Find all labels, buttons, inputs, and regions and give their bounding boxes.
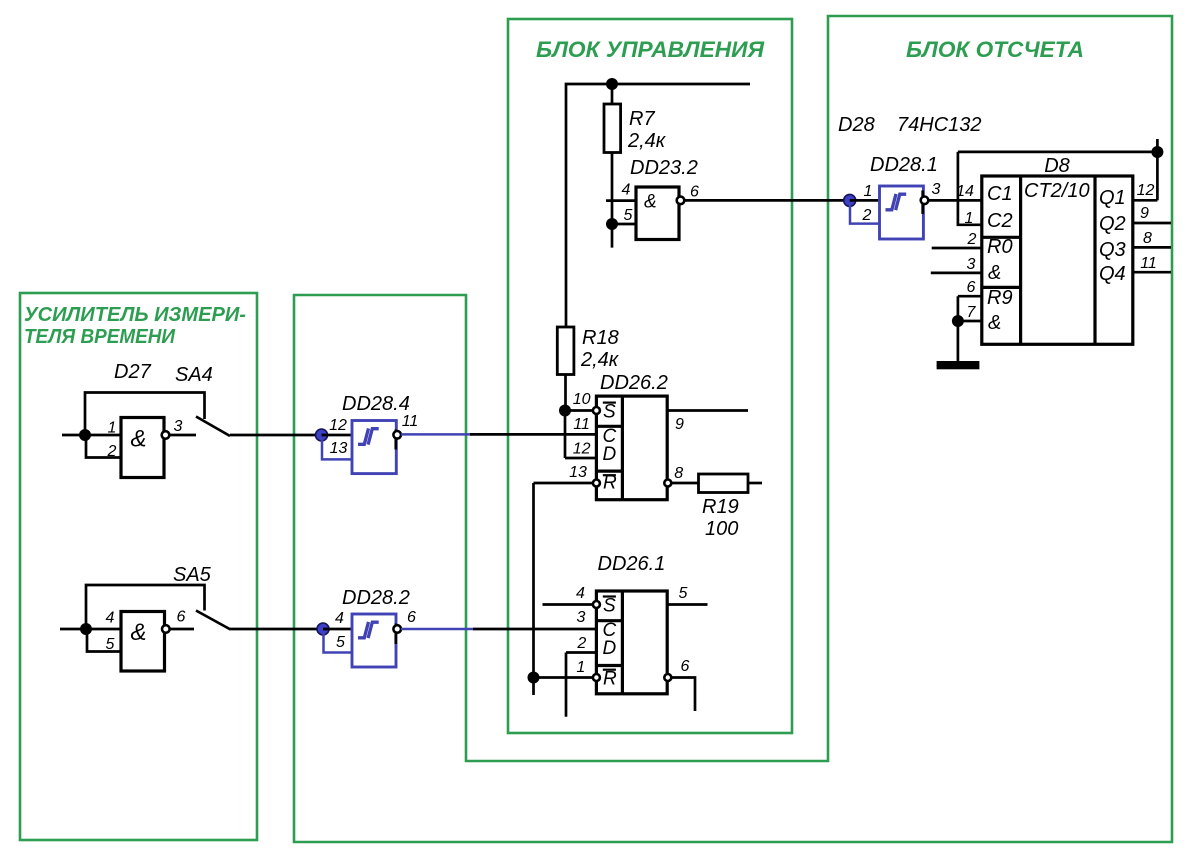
- pin 6 wire: [958, 295, 982, 298]
- pin 8 wire: [1133, 246, 1171, 249]
- svg-text:13: 13: [569, 464, 587, 481]
- svg-text:D27: D27: [114, 361, 152, 383]
- pin 13 loop wire (blue): [322, 438, 352, 459]
- svg-text:БЛОК ОТСЧЕТА: БЛОК ОТСЧЕТА: [906, 37, 1084, 62]
- svg-text:R: R: [603, 669, 617, 690]
- svg-text:Q4: Q4: [1099, 263, 1126, 285]
- ground: [937, 361, 980, 369]
- svg-text:6: 6: [407, 609, 416, 626]
- svg-text:CT2/10: CT2/10: [1024, 180, 1090, 202]
- pin 11 wire: [1133, 271, 1171, 274]
- black tick at output edge: [394, 624, 397, 627]
- svg-text:1: 1: [864, 183, 873, 200]
- svg-text:13: 13: [330, 440, 348, 457]
- pin 2 loop wire (blue): [850, 203, 880, 224]
- svg-text:R0: R0: [987, 236, 1013, 258]
- DD28.2 output bubble: [393, 625, 401, 633]
- svg-text:&: &: [988, 262, 1001, 284]
- svg-text:1: 1: [576, 659, 585, 676]
- wire: junction down to D pin: [564, 411, 567, 459]
- pin 9 wire: [1133, 222, 1171, 225]
- svg-text:DD28.2: DD28.2: [342, 587, 410, 609]
- svg-text:DD23.2: DD23.2: [630, 157, 698, 179]
- pin 2 loop wire: [86, 435, 121, 458]
- svg-text:Q2: Q2: [1099, 213, 1126, 235]
- svg-text:БЛОК УПРАВЛЕНИЯ: БЛОК УПРАВЛЕНИЯ: [536, 37, 765, 62]
- schmitt trigger DD28.2 box: [352, 614, 396, 667]
- svg-text:S: S: [603, 402, 616, 423]
- svg-text:9: 9: [1140, 205, 1149, 222]
- svg-text:2: 2: [107, 443, 117, 460]
- svg-text:D28: D28: [838, 114, 875, 136]
- svg-text:2,4к: 2,4к: [627, 130, 667, 152]
- svg-text:6: 6: [177, 609, 186, 626]
- pin 1 wire: [85, 434, 121, 437]
- pin 5 wire: [612, 223, 636, 226]
- junction (blue) DD28.2 input: [317, 623, 329, 635]
- svg-text:DD28.1: DD28.1: [870, 154, 938, 176]
- svg-text:3: 3: [967, 256, 976, 273]
- wire: DD28.4 output (blue part): [401, 433, 470, 436]
- svg-text:R19: R19: [702, 496, 739, 518]
- wire: R7 top lead: [611, 84, 614, 104]
- svg-text:7: 7: [967, 304, 977, 321]
- svg-text:DD26.2: DD26.2: [600, 372, 668, 394]
- junction (blue) DD28.1 input: [844, 194, 856, 206]
- svg-text:R18: R18: [582, 327, 619, 349]
- svg-text:Q1: Q1: [1099, 187, 1126, 209]
- schmitt trigger DD28.1 box: [880, 186, 924, 239]
- svg-text:R9: R9: [987, 287, 1013, 309]
- svg-text:8: 8: [674, 465, 683, 482]
- svg-text:&: &: [131, 619, 147, 646]
- pin 13 wire and bubble: [534, 482, 593, 485]
- wire: D stub down: [565, 653, 568, 717]
- flip-flop DD26.2 box: [596, 396, 667, 500]
- wire: R19 right stub: [748, 482, 762, 485]
- svg-text:C2: C2: [987, 210, 1013, 232]
- svg-text:12: 12: [1137, 182, 1155, 199]
- svg-text:8: 8: [1143, 230, 1152, 247]
- svg-text:74HC132: 74HC132: [897, 114, 982, 136]
- svg-text:Q3: Q3: [1099, 239, 1126, 261]
- wire: R18 bottom lead: [564, 375, 567, 411]
- gate output bubble: [162, 625, 170, 633]
- svg-text:9: 9: [675, 416, 684, 433]
- svg-text:C1: C1: [987, 183, 1013, 205]
- svg-text:5: 5: [679, 585, 688, 602]
- block boundary: БЛОК УПРАВЛЕНИЯ box: [508, 19, 792, 733]
- pin 12 wire (D): [565, 457, 596, 460]
- svg-text:4: 4: [576, 585, 585, 602]
- svg-text:1: 1: [108, 420, 117, 437]
- pin 3 wire: [931, 272, 982, 275]
- switch SA4 blade: [196, 417, 230, 437]
- junction: R18 / S pin node: [559, 405, 571, 417]
- svg-text:DD26.1: DD26.1: [598, 553, 666, 575]
- svg-text:D: D: [603, 638, 617, 659]
- pin 2 wire: [932, 247, 982, 250]
- wire: DD28.2 output (blue part): [401, 628, 473, 631]
- pin 5 loop wire: [87, 629, 121, 652]
- svg-text:10: 10: [573, 391, 591, 408]
- svg-text:УСИЛИТЕЛЬ ИЗМЕРИ-: УСИЛИТЕЛЬ ИЗМЕРИ-: [24, 304, 246, 326]
- svg-text:6: 6: [690, 184, 699, 201]
- pin 4 wire: [86, 628, 121, 631]
- svg-text:5: 5: [336, 634, 345, 651]
- svg-text:6: 6: [967, 279, 976, 296]
- svg-text:2: 2: [576, 635, 586, 652]
- svg-text:2,4к: 2,4к: [580, 349, 620, 371]
- svg-text:11: 11: [1140, 255, 1157, 272]
- junction: pin5 node: [606, 218, 618, 230]
- pin 6 bubble and wire: [664, 674, 671, 681]
- resistor R7: [604, 104, 621, 153]
- svg-text:11: 11: [573, 416, 590, 433]
- pin 9 wire: [667, 409, 748, 412]
- pin 1 wire and bubble: [534, 676, 593, 679]
- junction: D27 input node: [79, 429, 91, 441]
- svg-text:1: 1: [965, 210, 974, 227]
- wire: DD23.2 output to DD28.1 input: [684, 199, 849, 202]
- junction: pin 7 node: [952, 315, 964, 327]
- svg-text:SA4: SA4: [175, 364, 213, 386]
- junction: SA5 gate input node: [80, 623, 92, 635]
- schmitt hysteresis glyph: [886, 194, 897, 210]
- flip-flop DD26.1 box: [596, 591, 667, 694]
- wire: SA5 bypass bracket: [86, 585, 205, 629]
- wire: R7 bottom lead down past pin 5: [611, 153, 614, 248]
- svg-text:D8: D8: [1044, 155, 1070, 177]
- pin 4 wire: [606, 199, 636, 202]
- svg-text:D: D: [603, 444, 617, 465]
- counter D8 box: [982, 176, 1133, 344]
- pin 4 wire and bubble: [543, 603, 593, 606]
- svg-text:2: 2: [967, 231, 977, 248]
- wire: left stub SA5 gate: [60, 628, 86, 631]
- svg-text:11: 11: [402, 413, 419, 430]
- wire: top supply bus: [566, 84, 750, 327]
- junction: top bus / R7: [606, 78, 618, 90]
- svg-text:4: 4: [335, 610, 344, 627]
- svg-text:2: 2: [862, 207, 872, 224]
- pin 5 wire: [667, 603, 707, 606]
- wire: feedback down to pin 12: [1156, 152, 1159, 200]
- block boundary: УСИЛИТЕЛЬ ИЗМЕРИТЕЛЯ ВРЕМЕНИ: [20, 293, 257, 840]
- pin 5 loop wire (blue): [324, 632, 353, 653]
- D27 output bubble: [162, 431, 170, 439]
- gate SA5 (D27 second half): [121, 612, 165, 672]
- pin 3 wire: [169, 434, 196, 437]
- wire: pin 3 to D8 C1: [928, 199, 982, 202]
- DD28.4 output bubble: [393, 431, 401, 439]
- schmitt trigger DD28.4 box: [352, 421, 396, 474]
- svg-text:3: 3: [577, 609, 586, 626]
- svg-text:S: S: [603, 596, 616, 617]
- svg-text:&: &: [644, 192, 657, 213]
- svg-text:R7: R7: [629, 108, 655, 130]
- wire: SA4 to DD28.4: [230, 434, 322, 437]
- resistor R18: [557, 327, 574, 375]
- black tick at output edge: [394, 430, 397, 433]
- pin 7 wire: [958, 320, 982, 323]
- junction: R net at DD26.1: [528, 672, 540, 684]
- svg-text:12: 12: [573, 441, 591, 458]
- pin 2 wire (D): [566, 651, 596, 654]
- wire: SA5 to DD28.2: [230, 628, 323, 631]
- pin 8 bubble and wire: [664, 480, 671, 487]
- black tick at output edge: [921, 191, 924, 215]
- svg-text:ТЕЛЯ ВРЕМЕНИ: ТЕЛЯ ВРЕМЕНИ: [24, 326, 176, 348]
- pin 6 wire: [170, 628, 194, 631]
- svg-text:5: 5: [106, 636, 115, 653]
- DD23.2 output bubble: [677, 197, 685, 205]
- wire: pin 12: [1133, 199, 1158, 202]
- wire: long C input from DD28.2 (black part): [473, 628, 596, 631]
- wire: C1/C2 bracket of D8: [958, 152, 982, 225]
- svg-text:4: 4: [622, 182, 631, 199]
- svg-text:4: 4: [106, 610, 115, 627]
- pin 1 wire: [850, 199, 880, 202]
- svg-text:100: 100: [705, 518, 738, 540]
- pin 10 wire and bubble: [565, 409, 593, 412]
- wire: feedback top wire Q1 to C1: [958, 151, 1158, 154]
- switch SA5 blade: [196, 611, 231, 630]
- svg-text:SA5: SA5: [173, 564, 212, 586]
- svg-text:5: 5: [624, 207, 633, 224]
- svg-text:3: 3: [174, 418, 183, 435]
- pin 12 wire: [322, 434, 353, 437]
- svg-text:DD28.4: DD28.4: [342, 393, 410, 415]
- DD28.1 output bubble: [921, 197, 929, 205]
- junction: feedback corner: [1151, 146, 1163, 158]
- schmitt hysteresis glyph: [358, 622, 369, 638]
- gate DD23.2: [636, 187, 679, 240]
- gate D27: [121, 418, 164, 478]
- svg-text:6: 6: [681, 658, 690, 675]
- wire: stub above junction: [1156, 139, 1159, 152]
- wire: R net vertical to DD26.1: [532, 483, 535, 695]
- wire: left stub D27: [62, 434, 85, 437]
- schmitt hysteresis glyph: [358, 428, 369, 444]
- wire: pin6/pin7 bracket down to ground: [957, 296, 960, 362]
- svg-text:12: 12: [329, 417, 347, 434]
- resistor R19: [699, 474, 749, 493]
- junction (blue) DD28.4 input: [316, 429, 328, 441]
- svg-text:14: 14: [956, 183, 974, 200]
- svg-text:&: &: [988, 312, 1001, 334]
- svg-text:3: 3: [932, 181, 941, 198]
- wire: SA4 bypass bracket: [85, 393, 205, 436]
- block boundary: БЛОК ОТСЧЕТА polygon: [294, 16, 1172, 842]
- wire: long C input from DD28.4 (black part): [470, 433, 596, 436]
- svg-text:&: &: [131, 426, 147, 453]
- pin 4 wire: [323, 628, 352, 631]
